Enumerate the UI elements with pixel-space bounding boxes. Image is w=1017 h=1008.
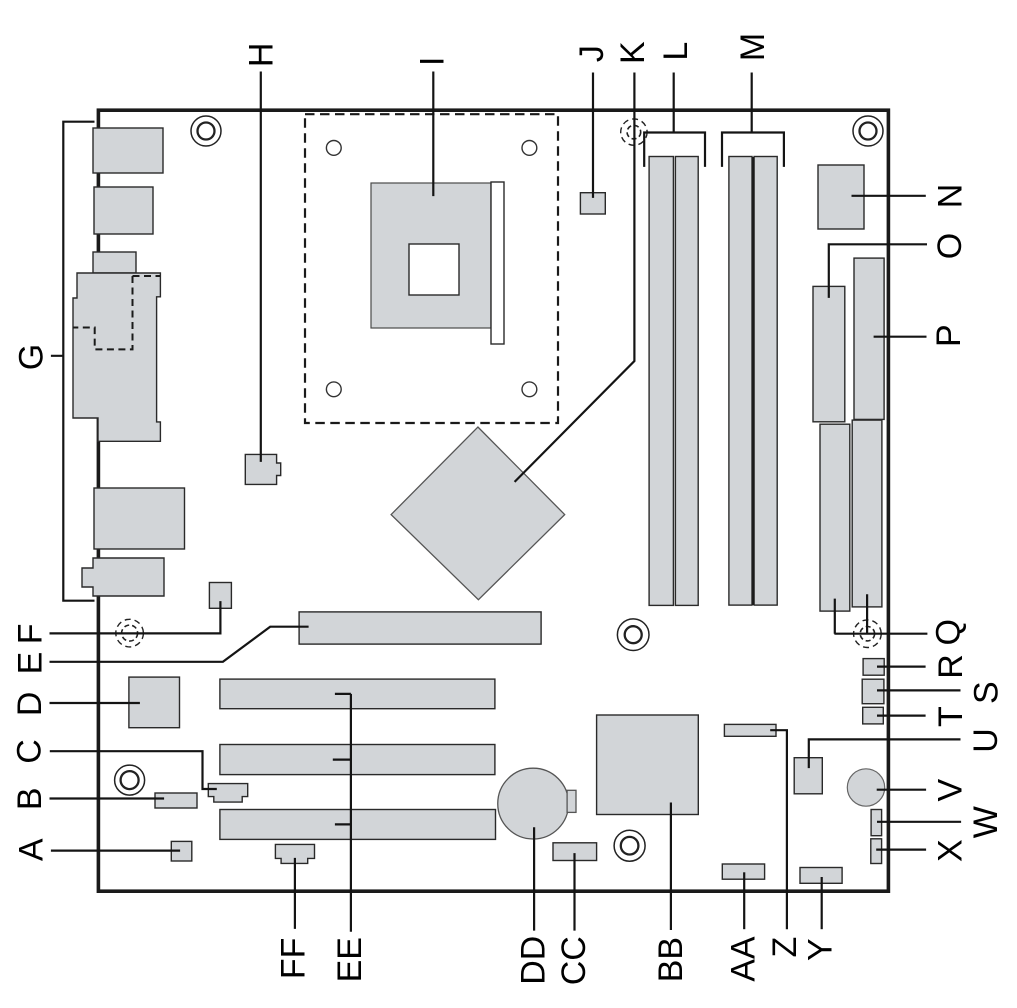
DIMM slot M1 bbox=[729, 157, 752, 606]
component O bbox=[813, 286, 845, 421]
label AA bbox=[725, 936, 763, 982]
back panel connector 2 bbox=[94, 187, 153, 234]
component S bbox=[862, 679, 884, 704]
label X bbox=[931, 839, 969, 862]
svg-text:D: D bbox=[11, 692, 49, 717]
AGP slot E bbox=[299, 612, 541, 644]
component C bbox=[208, 784, 247, 803]
label N bbox=[931, 184, 969, 209]
mounting hole bottom-center bbox=[614, 830, 645, 861]
label W bbox=[967, 806, 1005, 838]
component J bbox=[580, 193, 605, 214]
dashed optional connector overlay bbox=[73, 276, 160, 349]
DIMM M divider line bbox=[752, 157, 754, 605]
svg-text:L: L bbox=[657, 42, 695, 61]
label BB bbox=[652, 937, 690, 982]
G bracket bbox=[51, 122, 95, 601]
leader X bbox=[876, 848, 926, 850]
socket inner square bbox=[409, 244, 459, 295]
label B bbox=[11, 787, 49, 810]
leader P bbox=[874, 336, 927, 338]
heatsink diamond K bbox=[391, 427, 565, 600]
leader C bbox=[50, 751, 217, 789]
svg-text:H: H bbox=[243, 43, 281, 68]
battery tab bbox=[567, 790, 576, 812]
back panel connector stack top step bbox=[93, 252, 136, 273]
component B bbox=[155, 793, 197, 808]
mounting hole lower-left bbox=[115, 765, 145, 795]
socket hole bottom-left bbox=[326, 382, 341, 397]
leader Q bbox=[834, 594, 927, 634]
label S bbox=[968, 681, 1006, 704]
back panel connector complex bbox=[73, 273, 160, 441]
svg-text:FF: FF bbox=[274, 938, 312, 980]
leader U bbox=[809, 739, 961, 768]
svg-text:X: X bbox=[931, 839, 969, 862]
leader EE bbox=[333, 694, 351, 932]
DIMM slot L2 bbox=[675, 157, 698, 606]
label I bbox=[413, 56, 451, 65]
leader R bbox=[877, 665, 926, 667]
processor socket I bbox=[371, 183, 491, 328]
component W bbox=[871, 810, 882, 836]
mounting hole mid-center bbox=[617, 619, 649, 651]
label E bbox=[11, 652, 49, 675]
leader I bbox=[432, 72, 434, 197]
svg-text:B: B bbox=[11, 787, 49, 810]
DIMM slot L1 bbox=[649, 157, 673, 606]
socket hole bottom-right bbox=[522, 382, 537, 397]
label Q bbox=[929, 619, 967, 645]
svg-text:M: M bbox=[734, 33, 772, 61]
component T bbox=[863, 707, 884, 724]
leader M with bracket bbox=[722, 73, 784, 167]
svg-text:Z: Z bbox=[766, 937, 804, 958]
label P bbox=[930, 324, 968, 347]
leader O bbox=[829, 244, 927, 298]
component Y bbox=[800, 868, 842, 884]
label G bbox=[12, 344, 50, 370]
back panel audio connector bbox=[82, 558, 164, 596]
label C bbox=[11, 739, 49, 764]
leader DD bbox=[533, 827, 535, 930]
leader E bbox=[50, 627, 309, 662]
component F bbox=[209, 583, 231, 609]
leader D bbox=[50, 702, 140, 704]
svg-text:O: O bbox=[931, 233, 969, 259]
label V bbox=[931, 779, 969, 802]
leader L with bracket bbox=[644, 73, 705, 167]
svg-text:J: J bbox=[573, 45, 611, 62]
battery DD bbox=[498, 768, 569, 839]
label H bbox=[243, 43, 281, 68]
leader Z bbox=[770, 730, 787, 929]
leader AA bbox=[743, 872, 745, 929]
svg-text:BB: BB bbox=[652, 937, 690, 982]
component BB bbox=[597, 715, 699, 815]
leader H bbox=[260, 72, 262, 462]
mounting hole top-left bbox=[191, 116, 221, 146]
PCI slot 2 bbox=[220, 745, 495, 775]
leader K bbox=[515, 73, 635, 482]
board outline bbox=[98, 110, 888, 891]
svg-text:W: W bbox=[967, 806, 1005, 838]
svg-text:E: E bbox=[11, 652, 49, 675]
leader Y bbox=[821, 877, 823, 929]
back panel LAN connector bbox=[94, 488, 185, 549]
svg-text:R: R bbox=[932, 654, 970, 679]
mounting hole keyhole mid-right bbox=[854, 620, 882, 648]
leader S bbox=[877, 689, 961, 691]
label J bbox=[573, 45, 611, 62]
label FF bbox=[274, 938, 312, 980]
label R bbox=[932, 654, 970, 679]
PCI slot 3 bbox=[220, 810, 496, 840]
socket hole top-left bbox=[326, 141, 341, 156]
socket hole top-right bbox=[522, 141, 537, 156]
leader FF bbox=[294, 858, 296, 929]
component AA bbox=[722, 864, 764, 879]
leader CC bbox=[573, 853, 575, 931]
component Z bbox=[724, 724, 776, 736]
leader J bbox=[592, 73, 594, 198]
component X bbox=[871, 839, 882, 864]
DIMM slot M2 bbox=[754, 157, 777, 606]
svg-text:S: S bbox=[968, 681, 1006, 704]
label M bbox=[734, 33, 772, 61]
svg-text:Y: Y bbox=[802, 938, 840, 961]
svg-text:DD: DD bbox=[515, 936, 553, 985]
mounting hole keyhole top-center bbox=[621, 119, 647, 145]
leader BB bbox=[670, 803, 672, 931]
back panel connector 1 bbox=[93, 128, 163, 173]
label F bbox=[11, 623, 49, 644]
leader W bbox=[877, 821, 961, 823]
leader F bbox=[50, 601, 221, 633]
mounting hole top-right bbox=[853, 116, 883, 146]
label T bbox=[932, 706, 970, 727]
leader V bbox=[877, 789, 926, 791]
connector FF bbox=[275, 844, 314, 863]
svg-text:V: V bbox=[931, 779, 969, 802]
label CC bbox=[555, 936, 593, 985]
component R bbox=[863, 659, 884, 676]
component A bbox=[171, 841, 192, 861]
label O bbox=[931, 233, 969, 259]
svg-text:A: A bbox=[12, 838, 50, 861]
svg-text:Q: Q bbox=[929, 619, 967, 645]
label D bbox=[11, 692, 49, 717]
label DD bbox=[515, 936, 553, 985]
speaker V bbox=[847, 769, 884, 806]
connector Q-left bbox=[820, 424, 850, 611]
socket lever bar bbox=[491, 182, 504, 344]
svg-text:K: K bbox=[614, 41, 652, 64]
label K bbox=[614, 41, 652, 64]
label A bbox=[12, 838, 50, 861]
svg-text:F: F bbox=[11, 623, 49, 644]
leader N bbox=[852, 195, 926, 197]
component P bbox=[854, 258, 884, 419]
CPU socket dashed boundary bbox=[305, 114, 558, 423]
svg-text:I: I bbox=[413, 56, 451, 65]
label Y bbox=[802, 938, 840, 961]
svg-text:P: P bbox=[930, 324, 968, 347]
component D bbox=[129, 677, 180, 728]
svg-text:U: U bbox=[967, 728, 1005, 753]
mounting hole keyhole mid-left bbox=[116, 619, 144, 647]
svg-text:T: T bbox=[932, 706, 970, 727]
svg-text:AA: AA bbox=[725, 936, 763, 982]
svg-text:G: G bbox=[12, 344, 50, 370]
component U bbox=[794, 758, 822, 794]
label Z bbox=[766, 937, 804, 958]
connector Q-right bbox=[852, 420, 882, 607]
label EE bbox=[331, 937, 369, 982]
svg-text:CC: CC bbox=[555, 936, 593, 985]
svg-text:C: C bbox=[11, 739, 49, 764]
svg-text:N: N bbox=[931, 184, 969, 209]
component CC bbox=[553, 843, 597, 861]
label L bbox=[657, 42, 695, 61]
leader B bbox=[50, 797, 165, 799]
leader T bbox=[877, 714, 926, 716]
label U bbox=[967, 728, 1005, 753]
leader A bbox=[51, 849, 180, 851]
component H bbox=[245, 454, 280, 484]
svg-text:EE: EE bbox=[331, 937, 369, 982]
PCI slot 1 bbox=[220, 679, 495, 709]
component N bbox=[818, 165, 864, 229]
